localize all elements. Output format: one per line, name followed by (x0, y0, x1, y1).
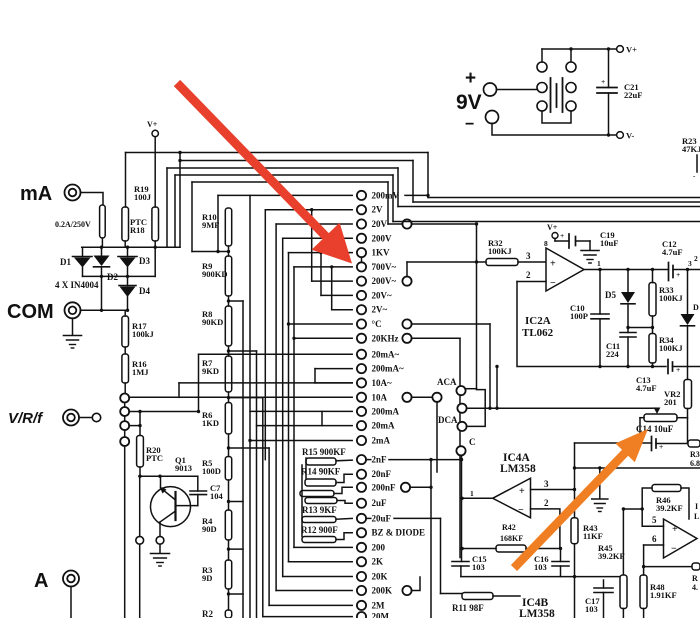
diode D3 (118, 256, 137, 258)
svg-text:4 X IN4004: 4 X IN4004 (55, 280, 99, 290)
svg-text:201: 201 (664, 397, 677, 407)
svg-text:2: 2 (526, 270, 531, 280)
wire top bus line3 right corner (397, 168, 399, 207)
svg-text:PTC: PTC (146, 453, 163, 463)
wire R19 bottom down to lower rail (154, 241, 156, 276)
switch contact at Q1 collector (156, 536, 164, 544)
switch contact 200 (294, 546, 352, 548)
input terminal A (63, 571, 79, 587)
svg-text:9V: 9V (456, 91, 482, 114)
wire top bus line2 (180, 160, 413, 162)
wire C13 right (673, 366, 700, 368)
wire chain connecting segments (228, 246, 230, 256)
svg-text:4.7uF: 4.7uF (636, 383, 657, 393)
svg-text:R3: R3 (690, 450, 700, 459)
svg-text:100kJ: 100kJ (132, 329, 154, 339)
switch contact (left col) node 3 (120, 421, 129, 430)
svg-text:2V~: 2V~ (372, 305, 388, 315)
wire bus v294 (293, 267, 295, 548)
wire down to R20 (139, 412, 141, 436)
switch contact ACA-1 (456, 386, 465, 395)
wire 700V~-to-2V~ descender (331, 267, 333, 310)
switch contact 200K (276, 590, 352, 592)
wire diode-network top rail (82, 246, 180, 248)
switch contact 2nF (357, 455, 366, 464)
power node V- (battery) (617, 132, 624, 139)
svg-text:20KHz: 20KHz (372, 333, 399, 343)
wire IC4A pin1 (462, 497, 493, 499)
switch contact 20V (276, 223, 352, 225)
wire 2nF row to v431 (366, 459, 371, 461)
svg-text:R11 98F: R11 98F (452, 603, 484, 613)
switch contact 200V (283, 237, 353, 239)
wire bus v262.8 (262, 398, 264, 617)
svg-text:10uF: 10uF (600, 238, 618, 248)
wire D6 down (687, 326, 689, 380)
fuse F1 0.2A/250V (100, 205, 106, 238)
switch contact C (456, 446, 465, 455)
wire R15 to 2nF contact (336, 459, 352, 462)
svg-text:+: + (560, 231, 564, 240)
wire R20 col to contact (139, 476, 141, 536)
wire bus v198.5 (198, 354, 200, 411)
svg-text:20nF: 20nF (372, 469, 392, 479)
wire COM to diodes (81, 309, 128, 311)
wire bus v250 (249, 195, 251, 618)
resistor (2uF range) body (305, 498, 337, 504)
svg-text:V+: V+ (547, 223, 558, 232)
switch contact 200mA~ (315, 368, 352, 370)
svg-text:4.: 4. (692, 583, 698, 592)
wire contact3 to R20 column (129, 425, 140, 427)
resistor R17 body (122, 316, 129, 347)
wire bus v288.5 (288, 253, 290, 562)
wire Q1 top rail (139, 475, 198, 477)
svg-text:V+: V+ (626, 45, 637, 55)
ground at IC4A (599, 468, 601, 499)
wire v623 to R45 (622, 509, 624, 575)
switch contact 200mA (250, 410, 352, 412)
switch contact 200K-b (402, 586, 411, 595)
wire y468 rail (575, 467, 700, 469)
wire R12 to BZ contact (336, 533, 352, 540)
resistor R43 body (571, 518, 578, 544)
svg-text:90KD: 90KD (202, 317, 223, 327)
svg-text:BZ & DIODE: BZ & DIODE (372, 528, 426, 538)
potentiometer VR2 wiper arrow (652, 407, 657, 409)
svg-text:200K: 200K (372, 586, 393, 596)
wire R33/R34 link (652, 316, 654, 334)
switch contact BZ &amp; DIODE (357, 528, 366, 537)
resistor R36 body (edge) (688, 440, 700, 447)
node chain tap dots (227, 250, 230, 253)
svg-text:+: + (672, 524, 678, 535)
resistor R19 body (152, 207, 159, 241)
switch contact 2V~ (332, 309, 353, 311)
resistor R3 body (225, 560, 231, 589)
switch contact DCA (457, 422, 466, 431)
switch contact 10A-b (402, 393, 411, 402)
capacitor C7 (190, 490, 207, 492)
wire R23 stub (696, 155, 698, 172)
wire top bus line5 right corner (387, 182, 389, 224)
svg-text:6: 6 (652, 534, 657, 544)
capacitor C13 (667, 360, 669, 374)
svg-text:D3: D3 (139, 256, 150, 266)
svg-text:9MF: 9MF (202, 220, 219, 230)
svg-text:LM358: LM358 (519, 608, 555, 618)
wire battery- down (492, 124, 617, 136)
resistor R35 body (edge) (684, 380, 692, 409)
svg-text:+: + (550, 259, 556, 270)
wire D2 vertical (101, 247, 103, 255)
ground at Q1 (159, 544, 161, 552)
switch contact 20V-b (402, 219, 411, 228)
wire tap R8/R7 stub (229, 350, 257, 352)
wire D5/R33 link (628, 327, 653, 329)
wire bus v243 (242, 301, 244, 618)
wire bus v315 (314, 369, 316, 383)
wire bus v282.7 (282, 238, 284, 576)
capacitor C19 (568, 234, 570, 248)
switch contact (left col) node 4 (120, 437, 129, 446)
wire R48 stubs (643, 567, 645, 575)
transistor Q1 body (151, 487, 191, 527)
svg-text:10A~: 10A~ (372, 378, 392, 388)
wire R14 to 20nF contact (336, 474, 352, 482)
wire left contact col stubs (124, 402, 126, 407)
wire top bus line4 right corner (392, 175, 394, 222)
svg-text:+: + (519, 486, 525, 497)
switch contact 20KHz-b (402, 334, 411, 343)
wire C15 bottom rail (460, 566, 462, 577)
svg-text:100KJ: 100KJ (659, 343, 683, 353)
svg-text:D5: D5 (605, 290, 616, 300)
wire top bus line5 (192, 181, 388, 183)
resistor R5 body (225, 457, 231, 481)
wire 1KV to 700V~ link (361, 257, 363, 262)
wire R32 input line (407, 261, 486, 263)
wire diode lower rail (83, 275, 156, 277)
wire C21 vertical (608, 49, 610, 88)
battery terminal - circle (486, 111, 499, 124)
svg-text:20mA: 20mA (372, 421, 395, 431)
wire top bus line4 (175, 174, 393, 176)
wire IC2A-box to VR2 line (496, 367, 498, 409)
wire COM rail to R17 (124, 310, 126, 316)
svg-text:39.2KF: 39.2KF (598, 551, 625, 561)
wire 1KV-to-20V~ descender (320, 253, 322, 296)
resistor (200nF range) body (300, 491, 334, 497)
svg-text:20K: 20K (372, 572, 388, 582)
wire R11 right (493, 595, 520, 597)
svg-text:200mA~: 200mA~ (372, 364, 404, 374)
svg-text:1: 1 (470, 489, 474, 498)
op-amp IC4A body (493, 478, 531, 518)
transistor Q1 emitter arrow (162, 489, 176, 500)
capacitor C15 (452, 561, 469, 563)
svg-text:100D: 100D (202, 466, 221, 476)
svg-text:D1: D1 (60, 257, 71, 267)
wire C7 top (197, 476, 199, 491)
svg-text:V/R/f: V/R/f (8, 410, 44, 427)
wire V+ down to R19 (154, 137, 156, 207)
wire Q1 base lead (176, 505, 198, 507)
wire Q1 emitter up (160, 476, 162, 488)
wire R16 to contact (124, 383, 126, 394)
svg-text:R12 900F: R12 900F (301, 525, 338, 535)
wire top bus line5 left corner (191, 182, 193, 252)
wire IC4A pin2 (531, 509, 560, 549)
wire R43 bottom (574, 544, 576, 618)
resistor R11 body (462, 593, 493, 600)
svg-text:47KJ: 47KJ (682, 144, 700, 154)
wire h566 to R48 (644, 566, 692, 568)
input terminal V/R/f (63, 410, 79, 426)
input terminal COM (65, 302, 81, 318)
input terminal mA (65, 185, 81, 201)
svg-text:C: C (469, 437, 476, 447)
switch contact (left col) node 1 (120, 394, 129, 403)
switch contact 700V~ (294, 266, 352, 268)
svg-text:9013: 9013 (175, 463, 192, 473)
resistor R2 body (cut) (225, 610, 231, 618)
switch contact 20KHz (294, 337, 352, 339)
wire IC4A pin3 (531, 489, 575, 491)
resistor R47 body (edge) (692, 563, 700, 570)
switch contact at V/R/f (79, 417, 92, 419)
svg-text:R15 900KF: R15 900KF (302, 447, 346, 457)
wire tap R7/R6 stub (229, 397, 263, 399)
svg-text:900KD: 900KD (202, 269, 228, 279)
capacitor C10 (591, 313, 609, 315)
svg-text:200mA: 200mA (372, 406, 400, 416)
wire cluster left verticals (305, 458, 307, 479)
svg-text:224: 224 (606, 349, 620, 359)
svg-text:103: 103 (534, 562, 547, 572)
svg-text:200mV: 200mV (372, 190, 400, 200)
wire top bus line4 left corner (174, 175, 176, 247)
wire top bus line3 (167, 167, 398, 169)
wire 2V-to-200V~ descender (311, 210, 313, 281)
svg-text:LM358: LM358 (500, 463, 536, 475)
transistor Q1 collector (160, 511, 176, 522)
wire top bus line1 left corner (125, 153, 127, 208)
capacitor C21 (597, 87, 617, 89)
annotation arrow (red) (174, 80, 352, 264)
wire to 2uF contact (337, 501, 352, 504)
wire tap R5/R4 stub (229, 501, 244, 503)
svg-text:R2: R2 (202, 609, 213, 618)
battery terminal + circle (484, 83, 497, 96)
wire C11 bottom (627, 337, 629, 367)
switch contact 10A~ (179, 382, 352, 384)
svg-text:−: − (550, 278, 556, 289)
wire VR2 right end (677, 417, 688, 419)
svg-text:700V~: 700V~ (372, 262, 397, 272)
wire R18 bottom stub (124, 241, 126, 247)
wire tap R10/R9 stub (192, 251, 229, 253)
wire R46 left (642, 488, 652, 526)
potentiometer VR2 body (644, 414, 677, 422)
wire R13 to 20uF contact (336, 517, 352, 520)
capacitor C17 (594, 587, 613, 589)
wire degC-b right (411, 323, 490, 325)
diode D1 (73, 256, 93, 258)
svg-text:11KF: 11KF (583, 531, 603, 541)
wire contact2 to x198 (129, 411, 198, 413)
wire top bus line2 right corner (412, 161, 414, 203)
svg-text:R14 90KF: R14 90KF (301, 467, 341, 477)
switch contact 200mV (218, 194, 352, 196)
switch contact 20V~ (321, 294, 352, 296)
wire contact down to bottom (139, 544, 141, 618)
wire VR2 left end (640, 417, 644, 419)
svg-text:IC2A: IC2A (525, 315, 551, 327)
wire R11 left feed (441, 593, 463, 595)
wire tap R3/R2 stub (229, 593, 244, 595)
resistor R46 body (652, 485, 681, 492)
resistor R16 body (122, 354, 129, 383)
switch contact 2uF (357, 499, 366, 508)
wire 200V~b up to R32 line (406, 262, 408, 277)
switch contact (left col) node 2 (120, 407, 129, 416)
svg-text:R18: R18 (130, 225, 145, 235)
wire R42 line (462, 548, 496, 550)
wire pin6 down (643, 545, 645, 567)
svg-text:200: 200 (372, 542, 386, 552)
wire A terminal down (70, 587, 72, 618)
connector block contacts (537, 62, 547, 72)
switch contact 20nF (357, 470, 366, 479)
svg-text:20V~: 20V~ (372, 290, 392, 300)
wire C16 stubs (560, 549, 562, 562)
svg-text:5: 5 (652, 515, 657, 525)
wire bus v276.1 (275, 224, 277, 591)
wire top bus line2 jog (179, 153, 181, 248)
wire tap R4/R3 stub (229, 548, 244, 550)
svg-text:−: − (671, 544, 677, 555)
wire R45 bottom (622, 609, 624, 618)
svg-text:168KF: 168KF (500, 534, 523, 543)
wire v462 lower (461, 498, 463, 561)
wire IC4B pin6 (644, 544, 664, 546)
wire D5 vertical (627, 270, 629, 293)
wire bus v256.5 (256, 351, 258, 618)
svg-text:I: I (695, 502, 698, 511)
switch contact 20uF (357, 514, 366, 523)
switch contact ACA-2 (457, 404, 466, 413)
svg-text:100KJ: 100KJ (659, 293, 683, 303)
svg-text:20V: 20V (372, 219, 388, 229)
svg-text:100KJ: 100KJ (488, 246, 512, 256)
resistor R10 body (225, 208, 231, 246)
switch contact 20M (263, 616, 352, 618)
svg-text:V+: V+ (147, 120, 158, 129)
svg-text:2uF: 2uF (372, 498, 388, 508)
wire row 10A~ extra (315, 382, 352, 384)
wire C contact stub down (461, 455, 463, 498)
resistor R4 body (225, 510, 231, 540)
connector block bars (550, 78, 552, 112)
svg-text:ACA: ACA (437, 377, 457, 387)
svg-text:+: + (601, 77, 605, 86)
svg-text:R: R (692, 574, 698, 583)
svg-text:8: 8 (544, 239, 548, 248)
wire 200K-b link (411, 577, 420, 591)
svg-text:-: - (693, 172, 696, 180)
wire R35 down (687, 409, 689, 444)
wire C12 out (673, 269, 700, 271)
svg-text:2: 2 (544, 498, 549, 508)
wire ACA-1 link (466, 388, 477, 390)
svg-text:1KV: 1KV (372, 248, 391, 258)
wire R17 to R16 (124, 347, 126, 354)
svg-text:6.8: 6.8 (690, 459, 700, 468)
wire fuse bottom to diode rail (101, 238, 103, 247)
svg-text:200nF: 200nF (372, 482, 397, 492)
svg-text:0.2A/250V: 0.2A/250V (55, 220, 91, 229)
svg-text:1KD: 1KD (202, 418, 219, 428)
wire R34 bottom (652, 363, 654, 367)
wire connector top pair up (541, 49, 543, 62)
wire v574.5 to R43 (574, 468, 576, 518)
svg-text:1MJ: 1MJ (132, 367, 149, 377)
svg-text:+: + (465, 68, 476, 89)
svg-text:2V: 2V (372, 205, 384, 215)
svg-text:V-: V- (626, 131, 635, 141)
resistor R8 body (225, 306, 231, 346)
diode D4 (119, 285, 136, 287)
wire mA terminal to fuse (81, 193, 104, 206)
svg-text:103: 103 (585, 604, 598, 614)
wire ACA-2 to VR2 line (467, 407, 652, 409)
wire tap R9/R8 stub (229, 300, 244, 302)
wire tap R6/R5 stub (229, 447, 270, 449)
svg-text:9KD: 9KD (202, 366, 219, 376)
wire R20 bottom (139, 467, 141, 476)
svg-text:3: 3 (688, 259, 692, 268)
wire v431 (430, 460, 432, 618)
wire 20V-b to R32 net (411, 223, 476, 225)
svg-text:104: 104 (210, 491, 224, 501)
switch contact 200V~b (402, 277, 411, 286)
svg-text:3: 3 (526, 251, 531, 261)
svg-text:mA: mA (20, 183, 52, 205)
svg-text:+: + (676, 270, 680, 279)
svg-text:9D: 9D (202, 573, 212, 583)
wire op-amp pin2 line (517, 281, 546, 283)
wire 10A-b link (411, 396, 432, 398)
resistor R18 (PTC) body (122, 207, 129, 241)
ground at C19 (581, 250, 599, 252)
switch contact 2V (265, 209, 352, 211)
svg-text:100J: 100J (134, 192, 152, 202)
wire 20KHz-b right to C15 (411, 337, 460, 339)
svg-text:A: A (34, 570, 48, 592)
wire DCA elbow (467, 390, 486, 427)
wire bus v269.1 (268, 448, 270, 605)
svg-text:R42: R42 (502, 523, 516, 532)
resistor R20 PTC body (137, 436, 144, 468)
svg-text:90D: 90D (202, 524, 217, 534)
switch contact 2K (289, 561, 353, 563)
switch contact 20mA (257, 425, 353, 427)
wire bus v218 (217, 195, 219, 251)
svg-text:L: L (694, 512, 699, 521)
svg-text:2K: 2K (372, 557, 384, 567)
wire row 200mV right link (405, 194, 428, 196)
